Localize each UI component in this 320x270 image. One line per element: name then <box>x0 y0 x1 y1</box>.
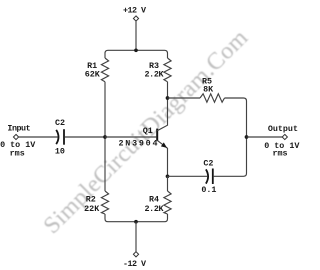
wire emitter junction to C2 <box>168 175 208 177</box>
svg-text:C2: C2 <box>55 118 65 128</box>
capacitor C2 input curved plate <box>56 130 58 144</box>
node base junction <box>103 135 107 139</box>
wire top rail <box>105 50 168 58</box>
wire +12V stub <box>135 21 137 50</box>
terminal Input diamond <box>13 134 18 139</box>
svg-text:R4: R4 <box>149 195 159 205</box>
node collector junction <box>166 96 170 100</box>
transistor Q1 collector lead <box>157 98 167 131</box>
node top rail junction <box>134 48 138 52</box>
terminal -12V diamond <box>133 252 138 257</box>
resistor R1 <box>101 58 108 82</box>
wire left column R1 to R2 <box>104 82 106 191</box>
capacitor C2 input straight plate <box>63 129 65 145</box>
svg-text:rms: rms <box>272 149 287 159</box>
terminal +12V diamond <box>133 16 138 21</box>
wire base junction to Q1 base <box>105 136 156 138</box>
wire C1 to base junction <box>65 136 105 138</box>
wire -12V stub <box>135 222 137 252</box>
transistor Q1 emitter arrow <box>161 142 167 148</box>
capacitor C2 output straight plate <box>212 169 214 185</box>
wire bottom rail <box>105 214 168 222</box>
node output junction <box>245 135 249 139</box>
resistor R4 <box>164 191 171 214</box>
node emitter junction <box>166 174 170 178</box>
resistor R3 <box>164 58 171 82</box>
transistor Q1 emitter lead <box>157 140 167 176</box>
svg-text:2N3904: 2N3904 <box>119 138 158 148</box>
svg-text:2.2K: 2.2K <box>145 204 165 214</box>
wire input to C1 <box>19 136 58 138</box>
svg-text:2.2K: 2.2K <box>145 69 165 79</box>
svg-text:0.1: 0.1 <box>201 185 216 195</box>
node bottom rail junction <box>134 220 138 224</box>
svg-text:22K: 22K <box>84 204 100 214</box>
svg-text:-12 V: -12 V <box>123 259 147 269</box>
resistor R2 <box>101 191 108 214</box>
watermark SimpleCircuitDiagram.Com <box>39 25 253 239</box>
wire R4 top <box>167 176 169 191</box>
svg-text:R2: R2 <box>86 195 96 205</box>
wire collector junction to R5 <box>168 97 201 99</box>
svg-text:Input: Input <box>7 124 30 134</box>
svg-text:rms: rms <box>10 148 25 158</box>
svg-text:C2: C2 <box>203 158 213 168</box>
svg-text:Q1: Q1 <box>143 126 153 136</box>
terminal Output diamond <box>282 134 287 139</box>
svg-text:10: 10 <box>55 146 65 156</box>
svg-text:+12 V: +12 V <box>123 5 147 15</box>
capacitor C2 output curved plate <box>206 169 208 183</box>
transistor Q1 base bar <box>156 129 158 141</box>
svg-text:Output: Output <box>268 124 298 134</box>
resistor R5 <box>200 94 225 102</box>
wire R3 to collector junction <box>167 82 169 98</box>
svg-text:62K: 62K <box>85 69 101 79</box>
wire output junction to terminal <box>247 136 283 138</box>
svg-text:8K: 8K <box>203 84 214 94</box>
wire R5 to output column <box>214 98 247 176</box>
